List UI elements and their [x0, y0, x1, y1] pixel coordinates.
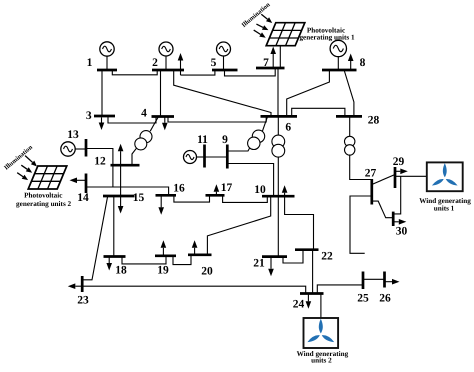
svg-text:17: 17: [221, 182, 233, 194]
svg-text:21: 21: [253, 258, 265, 270]
svg-text:20: 20: [201, 266, 213, 278]
svg-text:10: 10: [254, 184, 266, 196]
svg-text:27: 27: [365, 168, 377, 180]
svg-text:units 1: units 1: [434, 204, 455, 212]
svg-text:23: 23: [77, 295, 89, 307]
svg-text:22: 22: [321, 251, 333, 263]
svg-text:25: 25: [357, 293, 369, 305]
svg-text:2: 2: [152, 57, 158, 69]
svg-text:11: 11: [197, 134, 208, 146]
svg-text:Photovoltaic: Photovoltaic: [24, 192, 63, 200]
svg-text:6: 6: [285, 122, 291, 134]
svg-text:26: 26: [379, 293, 391, 305]
svg-text:15: 15: [133, 192, 145, 204]
svg-text:5: 5: [211, 57, 217, 69]
svg-text:4: 4: [141, 108, 147, 120]
svg-text:14: 14: [77, 192, 89, 204]
svg-text:generating units 2: generating units 2: [16, 200, 72, 208]
svg-text:generating units 1: generating units 1: [299, 33, 355, 41]
svg-text:7: 7: [263, 57, 269, 69]
svg-text:units 2: units 2: [311, 357, 332, 365]
svg-text:24: 24: [293, 299, 305, 311]
svg-text:19: 19: [157, 265, 169, 277]
svg-text:16: 16: [173, 183, 185, 195]
svg-text:18: 18: [115, 265, 127, 277]
svg-text:29: 29: [393, 156, 405, 168]
svg-text:3: 3: [86, 110, 92, 122]
svg-text:1: 1: [87, 57, 93, 69]
svg-text:13: 13: [67, 129, 79, 141]
svg-text:28: 28: [368, 115, 380, 127]
svg-text:30: 30: [396, 226, 408, 238]
svg-text:8: 8: [360, 57, 366, 69]
svg-text:12: 12: [94, 156, 106, 168]
svg-text:9: 9: [222, 134, 228, 146]
